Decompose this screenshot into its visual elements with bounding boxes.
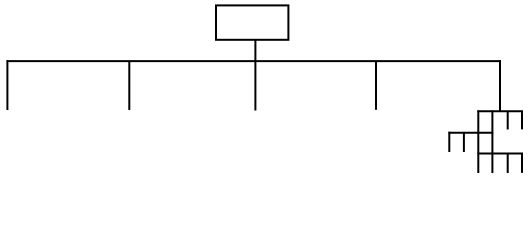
wire: subtree bar B xyxy=(448,132,493,134)
wire: subtree bar A xyxy=(477,110,523,112)
wire: drop 4 xyxy=(375,61,377,110)
wire: subtree long vertical V1 xyxy=(477,110,479,173)
wire: main horizontal bus xyxy=(6,60,501,62)
wire: subtree drop C3 xyxy=(507,154,509,174)
wire: subtree short drop A3 xyxy=(507,111,509,129)
wire: subtree leaf B1 xyxy=(448,132,450,152)
wire: root stem / center drop xyxy=(254,40,256,111)
node box: root xyxy=(216,5,288,39)
wire: drop 2 xyxy=(128,61,130,110)
wire: left end drop xyxy=(6,60,8,110)
wire: subtree long vertical V2 xyxy=(491,110,493,173)
wire: right end drop to subtree xyxy=(499,60,501,111)
wire: subtree short drop A4 xyxy=(521,111,523,129)
wire: subtree drop C4 xyxy=(521,154,523,173)
wire: subtree bar C xyxy=(477,153,523,155)
wire: subtree leaf B2 xyxy=(463,133,465,152)
